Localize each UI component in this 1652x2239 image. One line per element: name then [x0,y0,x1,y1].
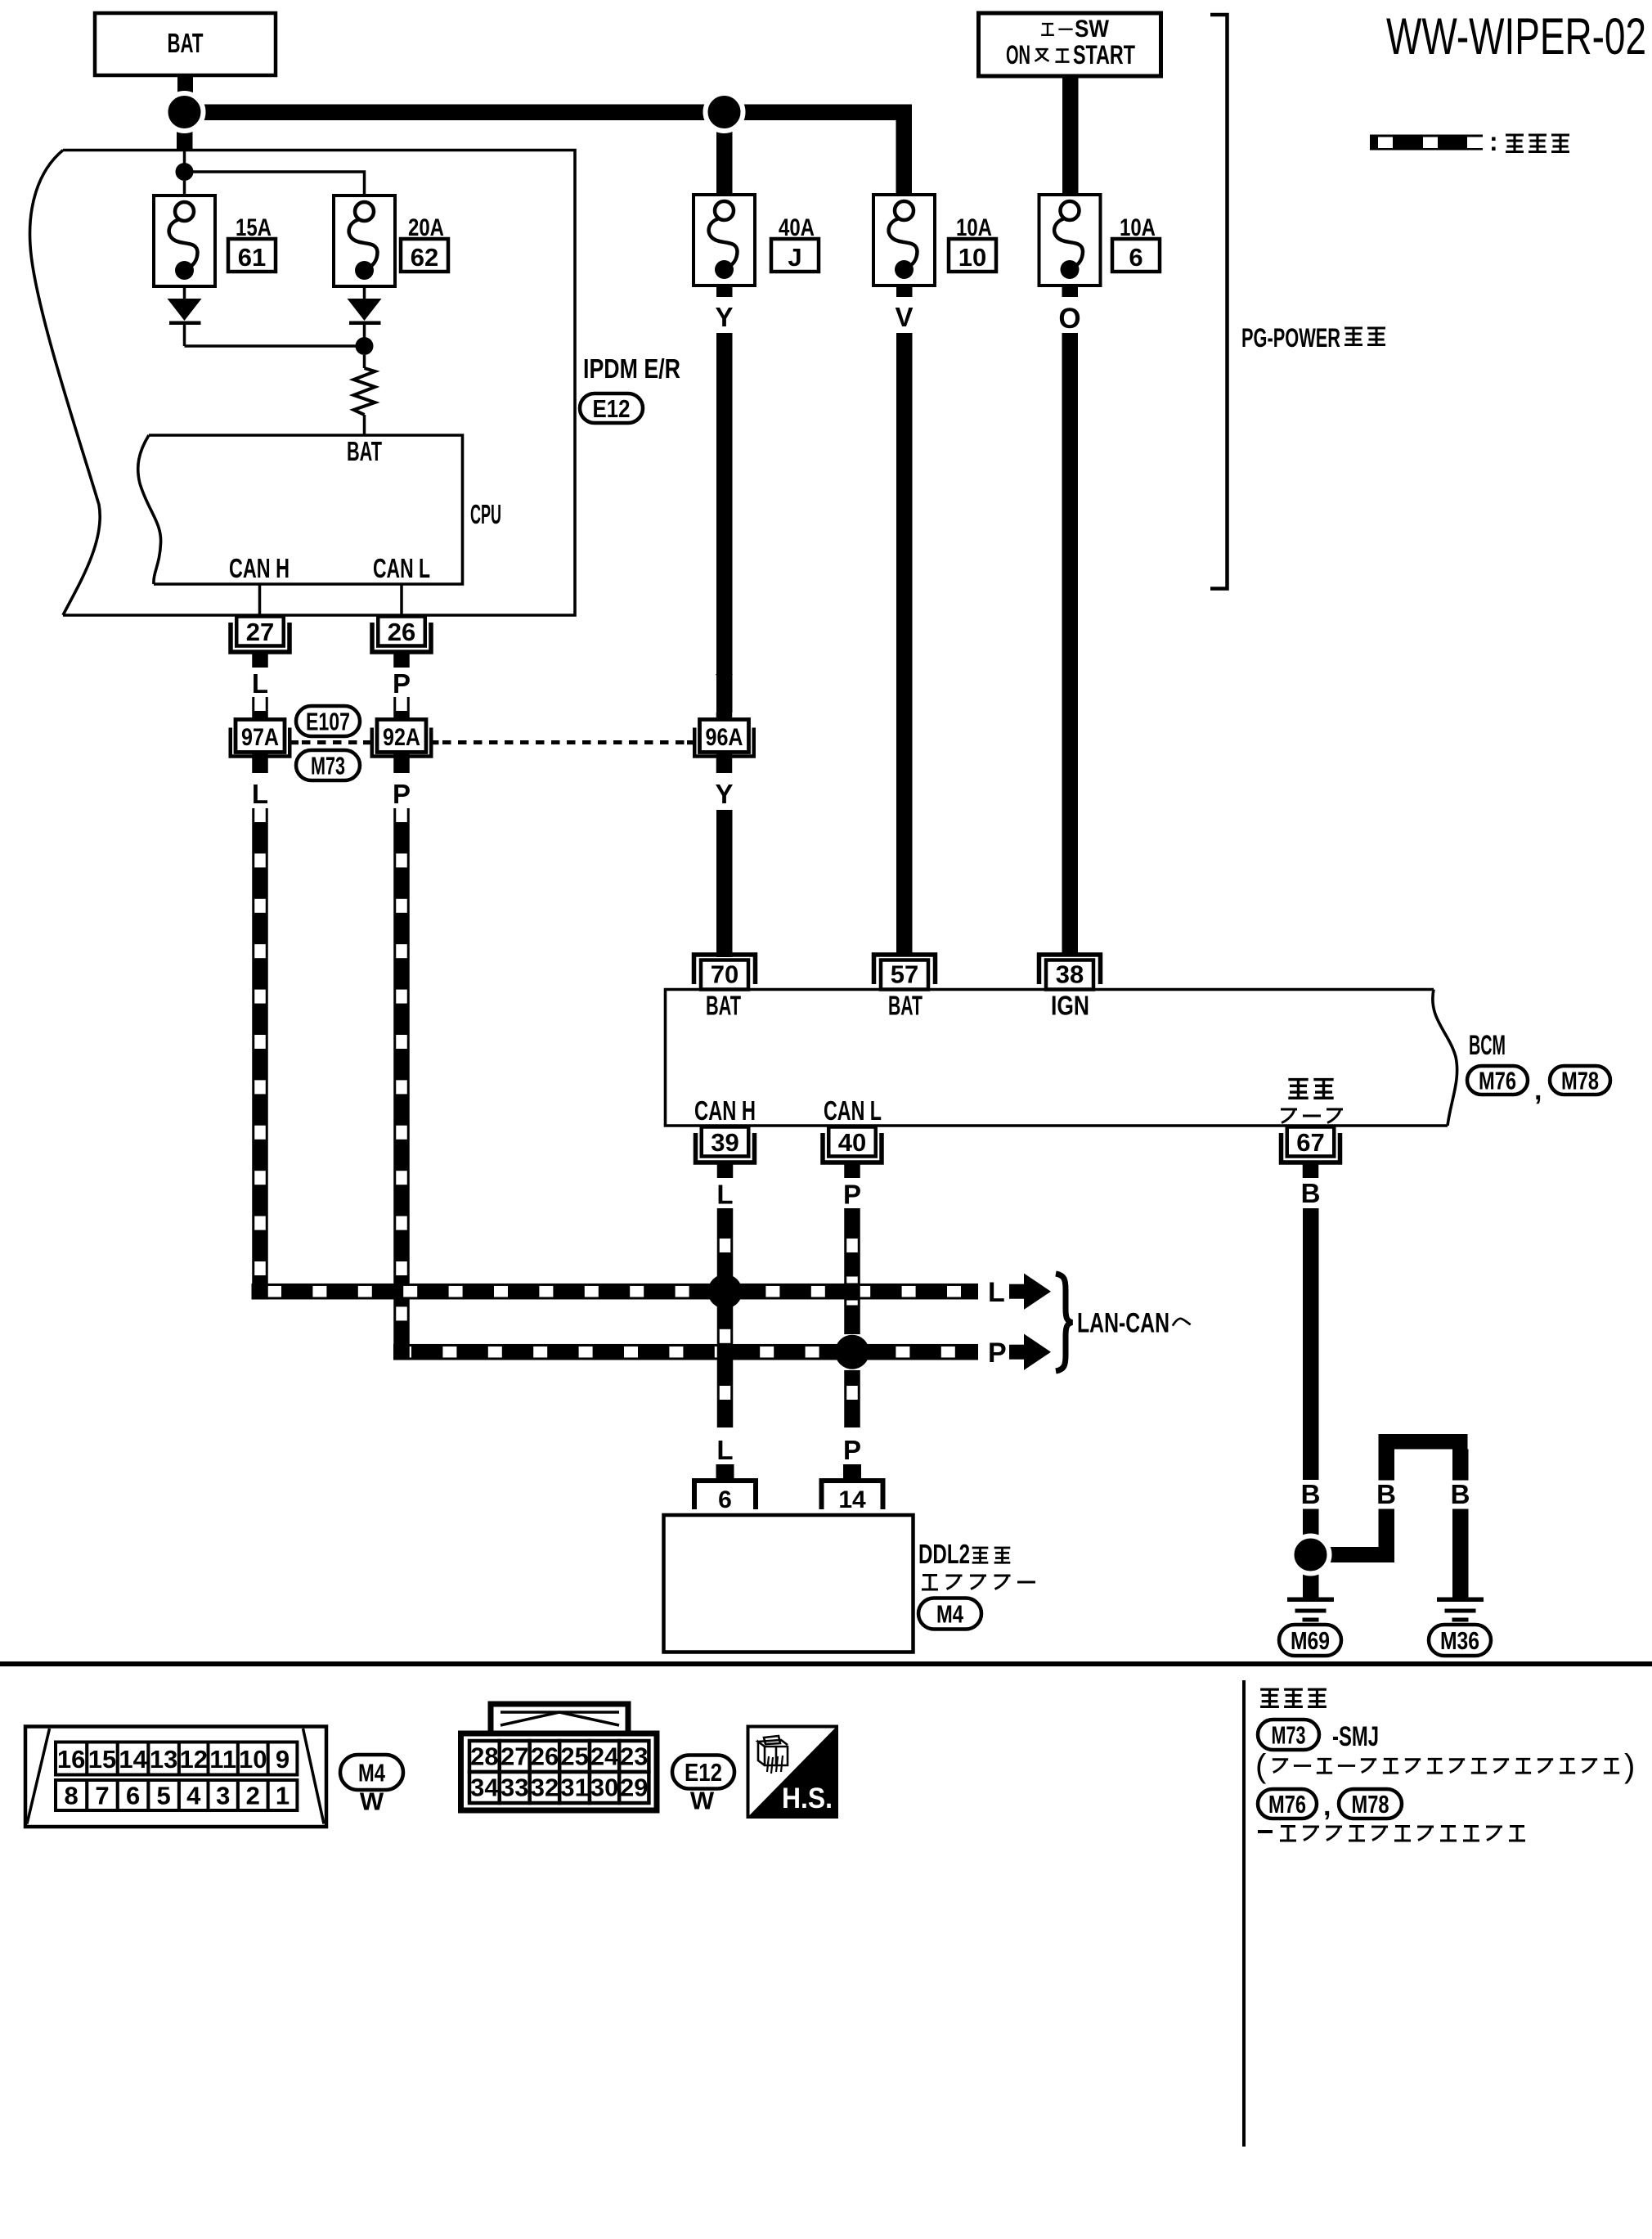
svg-text:16: 16 [57,1745,85,1774]
ref E12 oval 2 [672,1756,734,1789]
third B vertical to ground M36 [1452,1509,1469,1598]
svg-text:W: W [690,1787,715,1815]
CPU box inside IPDM with torn left edge [149,435,463,584]
svg-text:W: W [360,1787,384,1816]
ref M78 oval 2 [1339,1789,1402,1819]
svg-text:L: L [988,1277,1005,1308]
junction dot to both fuses [176,163,194,181]
svg-text:P: P [843,1180,861,1210]
tick dash to 96A [687,740,694,744]
svg-text:L: L [716,1180,733,1210]
ground symbol M69 [1287,1598,1334,1603]
svg-text:31: 31 [560,1774,588,1802]
svg-text:BAT: BAT [888,991,923,1021]
svg-text:6: 6 [718,1486,732,1513]
svg-text:E12: E12 [685,1758,722,1787]
svg-text:38: 38 [1056,960,1084,989]
resistor (termination) [354,368,375,415]
ground symbol M36 [1437,1598,1484,1603]
svg-text:L: L [252,668,268,699]
third B vertical upper [1452,1450,1469,1481]
connector ref E12 oval [580,393,643,423]
SMJ terminal 97A [252,713,268,721]
svg-text:M78: M78 [1561,1067,1599,1095]
BCM pin 57 [881,960,928,990]
key switch box (kii-SW ON or START) [979,13,1161,76]
svg-text:CAN H: CAN H [694,1095,756,1126]
svg-text:15: 15 [88,1745,116,1774]
BCM pin 38 [1046,960,1093,990]
notes header sanshousaki (references) [1260,1689,1279,1706]
svg-text:E12: E12 [593,394,631,423]
BCM label dengen (power) [1288,1080,1308,1099]
BCM label earth [1281,1109,1297,1123]
svg-text:10: 10 [239,1745,267,1774]
svg-text:O: O [1058,303,1080,335]
fuse 10A (10) [873,195,935,285]
junction dot CAN L / LAN line [835,1335,869,1369]
svg-text:BAT: BAT [168,28,204,58]
BCM pin 70 [701,960,748,990]
CAN L comm wire to SMJ [393,697,410,713]
B wire to ground M69 [1303,1567,1319,1598]
svg-text:BAT: BAT [706,991,741,1021]
ref M4 oval 2 [340,1755,403,1790]
svg-text:1: 1 [276,1782,290,1810]
legend: communication line sample [1370,135,1483,151]
svg-text:P: P [988,1338,1007,1369]
dashed SMJ link 97A-92A [302,740,361,744]
CAN L comm wire BCM to junction [844,1208,860,1334]
tick 92A to dash [432,740,439,744]
BCM pin 67 [1287,1127,1335,1157]
second B vertical lower [1379,1509,1395,1563]
svg-text:SW: SW [1075,16,1110,43]
svg-text:26: 26 [531,1742,559,1771]
svg-text:M73: M73 [1272,1721,1306,1750]
svg-text:62: 62 [411,243,438,272]
SMJ terminal 92A [393,713,410,721]
H.S. (hand-shake) icon [748,1727,837,1818]
svg-text:B: B [1451,1479,1470,1509]
junction dot diodes [356,337,374,355]
svg-text:BAT: BAT [347,436,382,466]
svg-text:24: 24 [590,1742,619,1771]
diode D2 below fuse 62 [363,286,366,299]
svg-text:5: 5 [157,1782,171,1810]
connector ref M73 oval [296,750,360,780]
stub below fuse 10A-10 [896,285,913,297]
svg-text:IPDM E/R: IPDM E/R [583,353,680,384]
svg-text:M76: M76 [1268,1790,1306,1819]
tick dash to 92A [363,740,370,744]
note: -electrical unit (katakana) [1258,1830,1273,1833]
svg-text::: : [1489,127,1498,156]
IPDM pin 27 [236,617,284,646]
DDL2 diagnostic connector box [664,1515,914,1652]
svg-text:33: 33 [501,1774,528,1802]
svg-text:6: 6 [126,1782,140,1810]
svg-text:B: B [1376,1479,1396,1509]
CAN H comm wire junction to DDL2 [717,1370,734,1427]
ref M76 oval 2 [1258,1789,1317,1819]
svg-text:(: ( [1255,1748,1267,1784]
wire CAN H to pin 27 [258,584,262,617]
O wire fuse to BCM pin 38 [1062,333,1079,953]
svg-text:V: V [895,302,913,332]
svg-text:CPU: CPU [470,499,501,529]
ground ref M69 [1279,1625,1341,1656]
label konekutaa (connector) [922,1576,938,1590]
svg-text:BCM: BCM [1469,1030,1506,1061]
svg-text:10: 10 [958,243,986,272]
wire down to 15A fuse [183,181,186,196]
separator line [0,1661,1652,1666]
wire to resistor [363,355,366,368]
svg-text:PG-POWER: PG-POWER [1241,323,1340,353]
CAN H comm wire 97A to LAN junction [252,808,268,1300]
svg-text:B: B [1301,1479,1321,1509]
CAN H comm wire to SMJ [252,697,268,713]
diode D1 below fuse 61 [183,286,186,299]
E12 connector face [491,1704,628,1733]
svg-text:H.S.: H.S. [782,1783,833,1814]
Y wire 96A to BCM pin 70 [716,810,733,957]
svg-text:14: 14 [119,1745,147,1774]
svg-text:M4: M4 [936,1600,964,1629]
svg-text:,: , [1323,1791,1331,1822]
stub below fuse 40A [716,285,733,297]
fuse 15A (61) [154,196,215,286]
wire key switch to 10A fuse 6 [1062,76,1079,195]
top horizontal B wire [1379,1434,1468,1450]
M4 connector face (OBD style) [25,1727,326,1828]
svg-text:M4: M4 [358,1759,386,1787]
svg-text:M78: M78 [1352,1790,1389,1819]
wire inside IPDM [183,151,186,164]
katakana: super multiple junction [1273,1760,1288,1773]
svg-text:27: 27 [501,1742,528,1771]
svg-text:Y: Y [715,779,733,809]
window notch below L line [846,1301,858,1306]
main battery bus wire [185,105,913,121]
wire CAN L to pin 26 [400,584,403,617]
svg-text:11: 11 [209,1745,236,1774]
svg-text:2: 2 [246,1782,260,1810]
small connector pictogram [758,1740,788,1765]
fuse 20A (62) [334,196,395,286]
wire bus corner down to 10A fuse [896,120,913,195]
svg-text:25: 25 [560,1742,588,1771]
B wire BCM 67 down [1303,1208,1319,1480]
SMJ terminal 96A [716,713,733,721]
svg-text:7: 7 [95,1782,109,1810]
svg-text:34: 34 [470,1774,499,1802]
svg-text:L: L [252,779,268,809]
svg-text:4: 4 [186,1782,201,1810]
svg-text:6: 6 [1129,243,1142,272]
second B vertical upper [1379,1450,1395,1481]
svg-text:LAN-CAN: LAN-CAN [1077,1308,1169,1339]
svg-text:ON: ON [1006,40,1030,70]
tick 97A to dash [291,740,299,744]
V wire fuse to BCM pin 57 [896,333,913,953]
svg-text:9: 9 [276,1745,290,1774]
IPDM pin 26 [378,617,425,646]
Y wire fuse 40A to SMJ 96A [716,333,733,713]
svg-text:23: 23 [620,1742,648,1771]
fuse 10A (6) [1039,195,1101,285]
svg-text:E107: E107 [306,708,350,736]
connector ref M78 [1550,1066,1610,1095]
svg-text:96A: 96A [706,724,743,751]
svg-text:L: L [716,1435,733,1465]
junction dot on main battery bus [706,93,743,131]
svg-text:70: 70 [711,960,738,989]
svg-text:12: 12 [179,1745,207,1774]
svg-text:40: 40 [838,1128,866,1157]
BCM pin 40 [828,1127,876,1157]
wire joining diode outputs [185,344,365,348]
svg-text:M69: M69 [1291,1626,1330,1655]
svg-text:28: 28 [470,1742,498,1771]
svg-text:M76: M76 [1479,1067,1516,1095]
fuse 40A (J) [694,195,755,285]
svg-text:30: 30 [590,1774,618,1802]
svg-text:B: B [1301,1178,1321,1208]
svg-text:M73: M73 [311,752,345,780]
svg-text:): ) [1624,1748,1635,1784]
PG-POWER reference bracket [1210,15,1228,589]
svg-text:WW-WIPER-02: WW-WIPER-02 [1386,8,1646,65]
connector ref E107 oval [296,706,360,736]
B wire above junction [1303,1509,1319,1542]
svg-text:92A: 92A [383,724,420,751]
svg-text:P: P [843,1435,861,1465]
svg-text:M36: M36 [1440,1626,1479,1655]
svg-text:67: 67 [1296,1128,1324,1157]
wire stub from BAT box [177,75,193,98]
svg-text:CAN L: CAN L [824,1095,882,1126]
connector ref M76 [1467,1066,1528,1095]
vertical divider line [1242,1680,1246,2147]
svg-text:39: 39 [711,1128,738,1157]
IPDM E/R outer box with torn left edge [63,151,575,616]
svg-text:61: 61 [238,243,266,272]
ground ref M36 [1429,1625,1491,1656]
corner L [252,1284,268,1300]
svg-text:26: 26 [388,618,415,646]
DDL2 pin 6 [694,1481,756,1509]
CAN L comm wire junction to DDL2 [844,1370,860,1427]
svg-text:-SMJ: -SMJ [1332,1721,1379,1752]
connector ref M4 oval [918,1598,981,1630]
BCM pin 39 [702,1127,749,1157]
comm line P to LAN-CAN [393,1344,978,1360]
window notch above L line [846,1277,858,1284]
svg-text:IGN: IGN [1051,991,1089,1021]
svg-text:8: 8 [65,1782,79,1810]
svg-text:CAN L: CAN L [373,553,430,583]
wire to 20A fuse [185,172,365,196]
ref M73 oval [1258,1720,1319,1750]
svg-text:32: 32 [531,1774,559,1802]
stub below fuse 10A-6 [1062,285,1079,297]
svg-text:START: START [1073,40,1135,70]
svg-text:13: 13 [150,1745,177,1774]
svg-text:,: , [1534,1075,1542,1106]
svg-text:97A: 97A [241,724,279,751]
svg-text:P: P [393,779,411,809]
arrow stub L [1009,1284,1024,1299]
svg-text:P: P [393,668,411,699]
CAN H comm wire BCM to junction [717,1208,734,1370]
svg-text:J: J [788,243,801,272]
comm line L to LAN-CAN [252,1284,979,1300]
DDL2 pin 14 [822,1481,883,1509]
battery feed box BAT [95,13,276,75]
brace for LAN-CAN [1056,1274,1072,1371]
wire bus to fuse 40A [716,120,733,195]
BCM box with torn right edge [666,990,1448,1126]
CAN L comm wire 92A to LAN junction [393,808,410,1360]
arrow stub P [1009,1345,1024,1360]
svg-text:14: 14 [838,1486,866,1513]
svg-text:29: 29 [620,1774,648,1802]
wire stub from bus into IPDM E/R [177,127,193,151]
horizontal B wire to second vertical [1325,1547,1394,1562]
svg-text:3: 3 [216,1782,230,1810]
svg-text:27: 27 [246,618,274,646]
wire resistor to CPU [363,415,366,435]
svg-text:CAN H: CAN H [229,553,290,583]
dashed SMJ link 92A-96A [442,740,685,744]
svg-text:57: 57 [891,960,918,989]
svg-text:DDL2: DDL2 [918,1539,970,1569]
svg-text:Y: Y [715,302,733,332]
corner P [393,1344,410,1360]
katakana: electrical unit [1280,1827,1296,1841]
legend text tsushinsen (communication line) [1506,135,1524,152]
junction dot CAN H / LAN line [708,1275,743,1309]
